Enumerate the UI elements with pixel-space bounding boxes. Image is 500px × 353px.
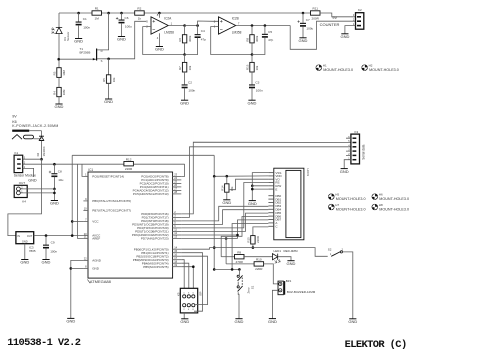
capacitor plates: [43, 245, 49, 246]
svg-text:GND: GND: [222, 200, 231, 205]
svg-text:GND: GND: [340, 169, 349, 174]
resistor R1: [92, 11, 102, 15]
svg-text:10M: 10M: [62, 89, 66, 95]
svg-text:100n: 100n: [50, 250, 57, 254]
wire R12 to PC0: [181, 164, 184, 176]
svg-text:R1: R1: [95, 7, 99, 11]
svg-text:300k: 300k: [188, 35, 192, 42]
svg-text:12: 12: [174, 231, 177, 235]
junction C8: [53, 163, 56, 166]
svg-text:BUZ-BUZZER-12MM: BUZ-BUZZER-12MM: [287, 290, 316, 294]
svg-text:GND: GND: [299, 38, 308, 43]
svg-text:C2: C2: [188, 80, 192, 84]
wire AGND down: [71, 260, 84, 318]
capacitor C6: [121, 13, 123, 20]
wire IC2B -in stub: [215, 26, 218, 28]
svg-text:D2: D2: [36, 152, 40, 156]
junction K4 pin2: [53, 188, 56, 191]
svg-text:PB5(SCK/PCINT5): PB5(SCK/PCINT5): [143, 265, 168, 269]
diode D2 1N4004: [41, 131, 43, 137]
wire S2 to gnd: [343, 252, 353, 319]
svg-text:H1: H1: [323, 63, 327, 67]
wire ISP gnd: [183, 313, 185, 319]
wire PB2 to ISP: [181, 256, 207, 304]
svg-text:14: 14: [174, 245, 177, 249]
junction 9V at K1 pin3: [40, 158, 43, 161]
svg-text:K1: K1: [15, 151, 19, 155]
svg-text:LCD1: LCD1: [306, 169, 310, 177]
wire to R8: [251, 26, 253, 35]
junction out/R6: [183, 24, 186, 27]
svg-text:PD7(AIN1/PCINT23): PD7(AIN1/PCINT23): [141, 237, 169, 241]
ground S1: [235, 318, 242, 320]
junction C4 top: [196, 24, 199, 27]
svg-text:GND: GND: [180, 100, 189, 105]
ground K3: [341, 168, 348, 170]
svg-text:GND: GND: [20, 260, 29, 265]
svg-text:10u: 10u: [58, 178, 63, 182]
wire PB5 SCK to ISP: [181, 267, 193, 294]
resistor R11: [311, 11, 321, 15]
svg-text:220R: 220R: [256, 236, 260, 243]
wire R3-R4: [58, 77, 60, 87]
svg-text:GND: GND: [155, 47, 164, 52]
svg-text:2: 2: [342, 249, 344, 252]
svg-text:PB6(XTAL1/TOSC1/PCINT6): PB6(XTAL1/TOSC1/PCINT6): [92, 199, 131, 203]
resistor R12: [124, 162, 133, 166]
wire PB1 to ISP: [181, 253, 202, 312]
svg-text:R12: R12: [126, 157, 132, 161]
svg-text:K2: K2: [358, 8, 362, 12]
capacitor C1 plates: [76, 22, 82, 23]
junction C9: [45, 234, 48, 237]
svg-text:GND: GND: [22, 240, 28, 244]
wire R10 row: [226, 263, 254, 265]
wire DB7 staircase: [238, 220, 269, 239]
resistor R9: [235, 255, 245, 259]
wire S1 row: [214, 268, 239, 270]
wire PB3 MOSI to ISP: [181, 260, 184, 294]
wire T1 drain: [97, 13, 109, 50]
wire AREF drop: [78, 164, 84, 238]
wire 9V to K2 pin3: [320, 13, 356, 17]
ground K2: [341, 33, 348, 35]
svg-text:IC1: IC1: [88, 168, 93, 172]
svg-text:R2: R2: [137, 7, 141, 11]
svg-text:Sensor: Sensor: [66, 32, 70, 41]
svg-text:7: 7: [238, 22, 240, 26]
svg-text:R4: R4: [53, 91, 57, 95]
ground C9: [42, 259, 49, 261]
svg-text:R10: R10: [256, 258, 262, 262]
resistor R2: [135, 11, 145, 15]
svg-text:MOUNT-HOLE3.0: MOUNT-HOLE3.0: [323, 68, 353, 72]
svg-text:GND: GND: [50, 201, 59, 206]
resistor R3: [57, 68, 61, 78]
svg-text:K5: K5: [176, 292, 180, 296]
svg-text:MOUNT-HOLE3.0: MOUNT-HOLE3.0: [336, 208, 366, 212]
capacitor C7: [302, 13, 304, 23]
wire S1 to gnd: [237, 292, 240, 318]
wire VSS to R/W to ground: [252, 173, 268, 186]
wire T1 source: [97, 58, 109, 60]
mount hole H1: [316, 65, 322, 71]
svg-text:GND: GND: [104, 99, 113, 104]
wire IC2B out row: [236, 25, 291, 27]
wire rail R2 to R11 node: [143, 12, 310, 14]
LED LED1: [273, 254, 278, 260]
ground C7: [299, 37, 306, 39]
svg-text:AREF: AREF: [92, 237, 100, 241]
microcontroller IC1 ATMEGA88: [88, 172, 173, 278]
svg-text:R7: R7: [178, 66, 182, 70]
svg-text:R14: R14: [220, 185, 224, 191]
svg-text:100u: 100u: [306, 27, 313, 31]
ground IC3: [21, 259, 28, 261]
wire PD1 to K3: [181, 147, 351, 218]
svg-text:ISP: ISP: [199, 291, 203, 296]
svg-text:H6: H6: [379, 192, 383, 196]
svg-text:10k: 10k: [112, 77, 116, 82]
ground C3: [248, 99, 255, 101]
capacitor C9: [45, 236, 47, 245]
svg-text:Sensor Module: Sensor Module: [14, 174, 36, 178]
svg-text:R8: R8: [246, 38, 250, 42]
svg-text:4: 4: [157, 36, 159, 40]
svg-text:VCC: VCC: [92, 220, 99, 224]
wire DB5 to PD5: [181, 213, 268, 231]
svg-text:H8: H8: [379, 203, 383, 207]
svg-text:9V: 9V: [332, 16, 337, 20]
wire K1 pin3: [23, 158, 42, 160]
resistor R13: [250, 62, 254, 72]
svg-text:MOUNT-HOLE3.0: MOUNT-HOLE3.0: [369, 68, 399, 72]
wire IC2A -in stub: [147, 26, 152, 28]
wire PB0 to S2 row: [181, 248, 327, 257]
mount hole H8: [372, 204, 378, 210]
junction K4 pin1: [53, 192, 56, 195]
svg-text:C4: C4: [201, 29, 205, 33]
buzzer BZ1: [278, 281, 283, 295]
wire K3 pin1 gnd: [344, 160, 351, 169]
wire R13 to C3: [251, 72, 253, 84]
svg-text:1: 1: [330, 253, 332, 256]
svg-text:10k: 10k: [255, 65, 259, 70]
svg-text:7805: 7805: [29, 249, 36, 253]
ground C8: [51, 200, 58, 202]
wire DB6 staircase: [221, 217, 268, 257]
wire rail R1 to R2: [102, 12, 135, 14]
svg-text:GND: GND: [28, 178, 37, 182]
svg-text:GND: GND: [348, 319, 357, 324]
svg-text:MOUNT-HOLE3.0: MOUNT-HOLE3.0: [379, 197, 409, 201]
svg-text:C6: C6: [125, 16, 129, 20]
ground C1: [75, 38, 82, 40]
junction GND pin: [70, 267, 73, 270]
svg-text:GND: GND: [92, 267, 100, 271]
wire K4 pin2 to C8 node: [20, 188, 54, 190]
wire to IC2B +in: [198, 21, 219, 26]
svg-text:D: D: [101, 49, 103, 53]
capacitor plates: [300, 23, 306, 24]
wire to R6: [184, 26, 186, 35]
connector K1 sensor module: [14, 155, 23, 172]
svg-text:100n: 100n: [83, 25, 90, 29]
svg-text:47p: 47p: [201, 38, 206, 42]
mount hole H2: [362, 65, 368, 71]
wire C to R15: [253, 227, 269, 236]
wire LED cathode to gnd: [278, 257, 291, 261]
svg-text:LM358: LM358: [164, 31, 174, 35]
wire fb1 down: [184, 55, 186, 63]
svg-text:Serial data: Serial data: [362, 144, 366, 159]
junction VCC: [71, 220, 74, 223]
svg-text:H2: H2: [369, 63, 373, 67]
svg-text:C8: C8: [58, 170, 62, 174]
junction source/R5: [107, 58, 110, 61]
wire counter route: [290, 21, 355, 49]
svg-text:C1: C1: [83, 17, 87, 21]
capacitor plates: [262, 34, 268, 35]
wire R10 to buzzer: [264, 264, 278, 284]
svg-text:R15: R15: [247, 237, 251, 243]
svg-text:S1: S1: [250, 285, 254, 289]
svg-text:GND: GND: [42, 260, 51, 265]
svg-text:S2: S2: [328, 247, 332, 251]
svg-text:PC6(/RESET/PCINT14): PC6(/RESET/PCINT14): [92, 175, 124, 179]
connector K3 serial data: [351, 134, 360, 164]
junction C1/rail: [77, 12, 80, 15]
wire DB4 riser to PD3: [181, 210, 268, 225]
svg-text:110538-1 V2.2: 110538-1 V2.2: [7, 337, 81, 349]
capacitor plates: [249, 84, 255, 85]
svg-text:R13: R13: [246, 64, 250, 70]
LCD1 display connector: [274, 168, 304, 240]
junction R/W: [251, 185, 254, 188]
resistor R6: [182, 35, 186, 43]
svg-text:C9: C9: [51, 241, 55, 245]
wire D1 node down: [58, 59, 60, 67]
wire feedback2 loop: [211, 27, 252, 55]
svg-text:C5: C5: [268, 30, 272, 34]
junction PB5: [192, 265, 195, 268]
svg-text:IN: IN: [17, 234, 20, 238]
svg-text:COUNTER: COUNTER: [320, 22, 340, 27]
wire R8 to fb2: [251, 43, 253, 55]
wire R7 to C2: [184, 72, 186, 84]
svg-text:K-POWER-JACK-2.50MM: K-POWER-JACK-2.50MM: [12, 124, 58, 128]
svg-text:GND: GND: [340, 34, 349, 39]
op-amp IC2B: [219, 17, 236, 34]
ground VSS: [249, 200, 256, 202]
ground R5: [105, 98, 112, 100]
wire E row: [252, 188, 268, 190]
resistor R15: [251, 236, 255, 244]
wire IC2A V+: [158, 13, 160, 18]
ground BZ1: [269, 318, 276, 320]
svg-text:1M: 1M: [95, 16, 100, 20]
svg-text:LED1: LED1: [274, 249, 282, 253]
wire IC2A out: [168, 25, 184, 27]
svg-text:GND: GND: [287, 261, 296, 266]
svg-text:C3: C3: [255, 80, 259, 84]
mount hole H6: [372, 194, 378, 200]
wire source to IC2A +in: [109, 21, 147, 59]
svg-text:H7: H7: [335, 203, 339, 207]
svg-text:GND: GND: [74, 39, 83, 44]
wire 9V to 7805 IN: [8, 159, 42, 235]
svg-text:ATMEGA88: ATMEGA88: [90, 279, 112, 284]
wire VDD row: [214, 175, 268, 177]
junction divider/gate: [57, 58, 60, 61]
svg-text:R3: R3: [53, 71, 57, 75]
wire vertical 214: [213, 176, 215, 269]
junction contrast resistor: [226, 175, 229, 178]
junction T1 drain/rail: [107, 12, 110, 15]
ground IC1: [67, 317, 74, 319]
svg-text:MOUNT-HOLE3.0: MOUNT-HOLE3.0: [379, 208, 409, 212]
wire rail from D1 to R1: [59, 12, 92, 14]
svg-text:10k: 10k: [230, 186, 234, 191]
svg-text:GND: GND: [268, 319, 277, 324]
ground R14: [223, 199, 230, 201]
svg-text:K3: K3: [355, 130, 359, 134]
svg-text:IC2B: IC2B: [232, 17, 239, 21]
wire S1 mid: [237, 282, 239, 286]
wire K2 pin1 to gnd: [345, 26, 356, 34]
wire PD7 row: [181, 238, 237, 240]
wire DB3 riser to PD2: [181, 206, 268, 221]
junction R11/C7 node: [302, 12, 305, 15]
wire R12 right: [133, 163, 184, 165]
ground ISP: [181, 318, 188, 320]
svg-text:C7: C7: [306, 18, 310, 22]
junction C5 top: [264, 24, 267, 27]
wire 5V OUT row: [34, 235, 84, 237]
resistor R5: [106, 75, 110, 84]
svg-text:100n: 100n: [256, 88, 263, 92]
power jack K6 symbol: [12, 130, 29, 132]
wire R6 to fb: [184, 43, 186, 55]
wire VO row: [229, 179, 268, 190]
svg-text:R9: R9: [237, 250, 241, 254]
ground S2: [349, 318, 356, 320]
svg-text:ELEKTOR (C): ELEKTOR (C): [345, 339, 407, 351]
wire A staircase: [232, 224, 268, 270]
junction fb1: [183, 53, 186, 56]
svg-text:1N4004: 1N4004: [42, 146, 46, 156]
svg-text:BF256B: BF256B: [80, 51, 91, 55]
wire K1 pin1 gnd: [23, 168, 34, 177]
capacitor C8: [53, 164, 55, 173]
ground IC2A: [156, 46, 163, 48]
connector K2 COUNTER: [356, 13, 364, 30]
svg-text:GND: GND: [235, 319, 244, 324]
wire GND pin: [71, 267, 84, 269]
svg-text:GND: GND: [180, 319, 189, 324]
wire PD0 to K3: [181, 142, 351, 214]
svg-text:PC5(ADC5/SCL/PCINT13): PC5(ADC5/SCL/PCINT13): [133, 192, 169, 196]
svg-text:E: E: [275, 187, 277, 191]
ground R4: [55, 103, 62, 105]
svg-text:10M: 10M: [62, 70, 66, 76]
switch S1: [237, 275, 239, 277]
wire K1 pin2 row / R12 row: [23, 163, 124, 165]
junction fb2: [251, 53, 254, 56]
wire feedback1 loop: [143, 27, 185, 55]
wire to R14: [226, 176, 228, 184]
capacitor plates: [182, 84, 188, 85]
svg-text:220R: 220R: [255, 267, 263, 271]
wire R5 to gnd: [108, 83, 110, 99]
wire VCC pin: [72, 220, 83, 222]
svg-text:RED-9MM: RED-9MM: [284, 249, 299, 253]
svg-text:S: S: [101, 59, 103, 63]
wire rail drop to VDD row: [213, 155, 215, 176]
svg-text:1k: 1k: [138, 16, 142, 20]
svg-text:PB7(XTAL2/TOSC2/PCINT7): PB7(XTAL2/TOSC2/PCINT7): [92, 209, 131, 213]
svg-text:R11: R11: [312, 7, 318, 11]
resistor R7: [182, 62, 186, 72]
mount hole H5: [329, 194, 335, 200]
op-amp IC2A: [151, 17, 168, 34]
svg-text:10k: 10k: [188, 65, 192, 70]
wire RS to PD4: [181, 183, 268, 228]
resistor R10: [254, 262, 264, 266]
svg-text:GND: GND: [248, 201, 257, 206]
svg-text:9V: 9V: [12, 114, 17, 118]
capacitor plates: [195, 34, 201, 35]
mount hole H7: [329, 204, 335, 210]
wire buzzer pin2 to gnd: [272, 290, 278, 318]
svg-text:AGND: AGND: [92, 259, 102, 263]
wire drop to R10 row: [225, 239, 227, 264]
svg-text:100n: 100n: [188, 88, 195, 92]
svg-text:GND: GND: [66, 319, 75, 324]
capacitor C6 plates: [119, 20, 125, 21]
ground C6: [118, 36, 125, 38]
junction IC2A power/rail: [158, 12, 161, 15]
svg-text:K4: K4: [22, 199, 26, 203]
svg-text:OUT: OUT: [19, 181, 26, 185]
regulator IC3 7805: [16, 232, 34, 244]
wire PB4 MISO to ISP: [181, 263, 189, 294]
capacitor C1: [78, 13, 80, 22]
svg-text:MOUNT-HOLE3.0: MOUNT-HOLE3.0: [336, 197, 366, 201]
wire 5V rail: [72, 154, 214, 156]
svg-text:H5: H5: [335, 192, 339, 196]
svg-text:GND: GND: [248, 100, 257, 105]
capacitor plates: [51, 173, 57, 174]
ground LED1: [287, 260, 294, 262]
svg-text:R6: R6: [178, 38, 182, 42]
wire to R5: [108, 59, 110, 75]
wire R4 to gnd: [58, 97, 60, 104]
svg-text:GND: GND: [55, 104, 64, 109]
wire pin1 hook: [82, 164, 83, 176]
junction PD6/DB7: [236, 234, 239, 237]
wire gate row: [59, 58, 91, 60]
wire IC2A V-: [158, 33, 160, 46]
wire 7805 gnd: [24, 244, 26, 260]
svg-text:GND: GND: [117, 37, 126, 42]
wire R9 row: [221, 256, 234, 258]
svg-text:220R: 220R: [125, 167, 133, 171]
svg-text:100u: 100u: [125, 24, 132, 28]
svg-text:OUT: OUT: [27, 234, 33, 238]
resistor R14: [225, 184, 229, 192]
wire fb2 down: [251, 55, 253, 63]
